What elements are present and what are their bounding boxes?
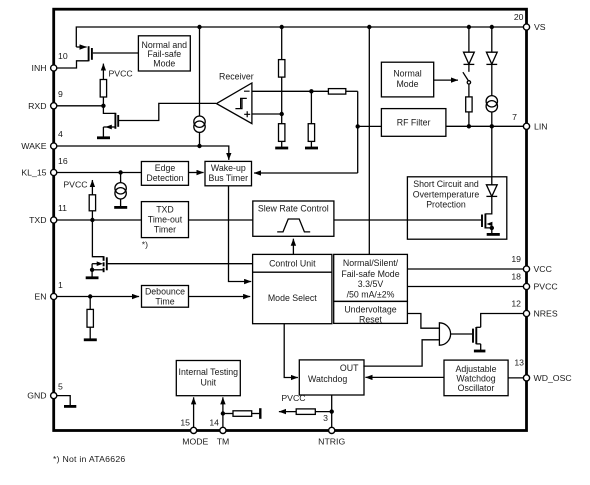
pin 12 NRES (511, 299, 558, 319)
resistor R7 (TXD pull-up) (89, 195, 95, 220)
block Short Circuit and Overtemperature Protection (407, 177, 506, 239)
PVCC supply arrow (NTRIG pull-up) (279, 393, 306, 412)
svg-text:VS: VS (534, 22, 546, 32)
svg-text:Unit: Unit (200, 377, 216, 387)
block Normal and Fail-safe Mode (138, 36, 190, 71)
wire watchdog out to gate input (363, 340, 439, 366)
pin 3 NTRIG (318, 413, 345, 447)
svg-text:PVCC: PVCC (63, 179, 87, 189)
svg-text:Protection: Protection (426, 200, 466, 210)
wire node to RF filter (358, 125, 382, 127)
pin 11 TXD (29, 203, 67, 225)
block Slew Rate Control (253, 201, 334, 236)
wire undervoltage reset to gate input (407, 314, 439, 329)
block Internal Testing Unit (176, 361, 240, 396)
gate U2 (AND) (439, 323, 450, 345)
ground (Q4 source) (474, 350, 486, 353)
ground (R8) (84, 338, 97, 341)
wire PVCC (407, 286, 526, 288)
svg-text:Receiver: Receiver (219, 72, 254, 82)
wire TXD (57, 219, 142, 221)
pin 5 GND (27, 382, 63, 401)
transistor Q2 (RXD output) (103, 106, 118, 137)
svg-text:Edge: Edge (155, 163, 176, 173)
svg-text:Short Circuit and: Short Circuit and (413, 179, 479, 189)
svg-text:EN: EN (34, 292, 46, 302)
wire receiver minus input (252, 90, 329, 92)
svg-text:WAKE: WAKE (21, 141, 46, 151)
ground (R5) (305, 147, 318, 150)
current source I1 (receiver bias) (194, 27, 205, 146)
svg-text:GND: GND (27, 391, 46, 401)
svg-text:Debounce: Debounce (145, 287, 185, 297)
resistor R5 (minus divider) (308, 91, 314, 147)
junction LIN-R6 (467, 124, 471, 128)
resistor R10 (TM test) (223, 408, 260, 419)
wire TXD box to slew rate control (189, 219, 253, 221)
transistor Q5 (LIN driver) (482, 196, 494, 233)
current source I2 (KL_15 bias) (115, 173, 126, 207)
svg-text:5: 5 (58, 382, 63, 392)
svg-text:Overtemperature: Overtemperature (413, 189, 480, 199)
block Normal Mode (381, 62, 433, 97)
pin 1 EN (34, 280, 63, 302)
junction plus-node (280, 112, 284, 116)
wire edge detection to wake-up timer (189, 172, 204, 174)
transistor Q1 (INH driver) (57, 46, 139, 68)
junction TM node (221, 411, 225, 415)
transistor Q4 (NRES driver) (473, 327, 481, 351)
svg-text:Watchdog: Watchdog (456, 373, 495, 383)
wire watchdog to NTRIG (331, 395, 333, 430)
wire MODE to testing unit (193, 397, 195, 430)
PVCC supply arrow (RXD pull-up) (103, 64, 132, 80)
svg-text:PVCC: PVCC (109, 69, 133, 79)
svg-text:16: 16 (58, 156, 68, 166)
junction TXD node (90, 218, 94, 222)
junction EN node (88, 294, 92, 298)
wire control unit to slew control (292, 239, 294, 255)
svg-text:Timer: Timer (154, 225, 176, 235)
svg-text:3: 3 (323, 413, 328, 423)
wire oscillator to watchdog (365, 376, 444, 378)
svg-text:TXD: TXD (29, 215, 46, 225)
junction rail-bias (197, 25, 201, 29)
svg-text:Time: Time (155, 297, 174, 307)
svg-text:Wake-up: Wake-up (211, 163, 246, 173)
svg-text:Bus Timer: Bus Timer (208, 173, 248, 183)
svg-text:KL_15: KL_15 (21, 168, 46, 178)
svg-text:14: 14 (209, 418, 219, 428)
resistor R8 (EN pull-down) (87, 297, 93, 340)
ground (I2) (114, 206, 127, 209)
svg-text:18: 18 (511, 272, 521, 282)
wire VS to regulator (368, 27, 370, 254)
svg-text:VCC: VCC (534, 264, 552, 274)
outer box (IC boundary) (54, 9, 527, 430)
pin 4 WAKE (21, 129, 63, 151)
svg-text:Control Unit: Control Unit (269, 259, 316, 269)
wire slew control to Q5 gate (334, 219, 481, 221)
junction rail-regulator (367, 25, 371, 29)
junction LIN-I3 (490, 124, 494, 128)
transistor Q3 (TXD sense) (90, 220, 107, 277)
wire NRES (481, 314, 526, 328)
svg-text:13: 13 (514, 358, 524, 368)
pin 9 RXD (28, 89, 63, 111)
junction LIN sense node (356, 124, 360, 128)
svg-text:WD_OSC: WD_OSC (534, 373, 572, 383)
svg-text:20: 20 (514, 12, 524, 22)
svg-text:Watchdog: Watchdog (308, 374, 347, 384)
ground (Q3 source) (86, 276, 99, 279)
wire VCC (407, 268, 526, 270)
wire KL_15 (57, 172, 142, 174)
junction WAKE-bias (197, 144, 201, 148)
svg-text:LIN: LIN (534, 121, 548, 131)
wire RXD (57, 105, 104, 107)
svg-text:Normal: Normal (393, 69, 421, 79)
svg-text:Detection: Detection (146, 173, 183, 183)
svg-text:Normal/Silent/: Normal/Silent/ (343, 258, 399, 268)
svg-text:Slew Rate Control: Slew Rate Control (258, 203, 329, 213)
svg-text:15: 15 (180, 418, 190, 428)
wire EN (57, 296, 140, 298)
svg-text:9: 9 (58, 89, 63, 99)
junction KL15-bias (118, 170, 122, 174)
block TXD Time-out Timer (141, 202, 188, 238)
resistor R9 (NTRIG pull-up) (296, 409, 332, 415)
svg-text:19: 19 (511, 254, 521, 264)
svg-text:PVCC: PVCC (534, 282, 558, 292)
junction minus-node (309, 89, 313, 93)
svg-text:Reset: Reset (359, 315, 383, 325)
resistor R6 (LIN slave term) (466, 97, 472, 126)
wire normal mode to switch (434, 79, 458, 81)
svg-text:NTRIG: NTRIG (318, 437, 345, 447)
junction rail-R2 (280, 25, 284, 29)
svg-text:INH: INH (32, 63, 47, 73)
resistor R3 (divider lower) (279, 124, 285, 148)
wire receiver output to Q2 gate (119, 103, 216, 120)
ground (R3) (275, 147, 288, 150)
diode D1 (464, 27, 475, 72)
wire LIN sense vertical (357, 91, 359, 173)
wire LIN (446, 125, 526, 127)
svg-text:TM: TM (217, 437, 230, 447)
svg-text:/50 mA/±2%: /50 mA/±2% (347, 289, 395, 299)
block Wake-up Bus Timer (205, 161, 252, 185)
svg-text:4: 4 (58, 129, 63, 139)
wire TM to testing unit (222, 397, 224, 430)
junction RXD node (101, 104, 105, 108)
svg-text:12: 12 (511, 299, 521, 309)
block Edge Detection (141, 162, 188, 186)
ground (Q2 source) (97, 136, 110, 139)
svg-text:RF Filter: RF Filter (397, 118, 431, 128)
svg-text:NRES: NRES (534, 309, 558, 319)
block Normal/Silent/Fail-safe Mode regulator (334, 254, 408, 301)
resistor R2 (bus pull-up upper) (279, 27, 285, 124)
pin 19 VCC (511, 254, 552, 274)
wire to wake-up bus timer (254, 172, 358, 174)
diode D3 (LIN driver clamp) (486, 185, 497, 197)
svg-text:Adjustable: Adjustable (455, 364, 496, 374)
current source I3 (LIN pull-up) (486, 96, 497, 127)
wire R1 to RXD node (102, 97, 104, 106)
svg-text:Time-out: Time-out (148, 215, 183, 225)
svg-text:Oscillator: Oscillator (458, 383, 495, 393)
wire receiver plus input (252, 113, 282, 115)
svg-text:TXD: TXD (156, 205, 174, 215)
block Undervoltage Reset (334, 301, 408, 324)
svg-text:10: 10 (58, 51, 68, 61)
pin 18 PVCC (511, 272, 557, 292)
pin 20 VS (514, 12, 546, 32)
wire Q3 gate to control unit (108, 263, 253, 265)
svg-text:Mode: Mode (153, 59, 175, 69)
pin 16 KL_15 (21, 156, 67, 178)
PVCC supply arrow (TXD pull-up) (63, 179, 92, 195)
svg-text:Mode: Mode (396, 79, 418, 89)
pin 10 INH (32, 51, 68, 73)
wire LIN to protection diode (491, 126, 493, 185)
svg-text:11: 11 (58, 203, 67, 213)
block Adjustable Watchdog Oscillator (444, 360, 508, 396)
svg-text:PVCC: PVCC (281, 393, 305, 403)
ground (Q5 source) (487, 233, 500, 236)
junction rail-D2 (490, 25, 494, 29)
switch S1 (normal mode) (463, 72, 471, 97)
ground (GND pin) (64, 405, 76, 408)
wire wake-up timer to mode select (229, 186, 252, 282)
block Debounce Time (142, 286, 189, 308)
svg-text:RXD: RXD (28, 101, 46, 111)
diode D2 (486, 27, 497, 96)
svg-text:3.3/5V: 3.3/5V (358, 279, 384, 289)
block Watchdog (299, 360, 364, 395)
svg-text:Internal Testing: Internal Testing (179, 367, 239, 377)
pin 13 WD_OSC (514, 358, 571, 383)
wire gate output (451, 333, 472, 335)
svg-text:7: 7 (512, 112, 517, 122)
resistor R4 (LIN series) (328, 89, 357, 95)
wire VS rail (76, 27, 526, 47)
wire WD_OSC (508, 377, 526, 379)
block RF Filter (381, 109, 446, 137)
wire GND pin to ground (57, 396, 71, 406)
pin 7 LIN (512, 112, 547, 131)
pin 15 MODE (180, 418, 208, 447)
block Control Unit / Mode Select (253, 254, 332, 323)
svg-text:1: 1 (58, 280, 63, 290)
junction NTRIG node (330, 409, 334, 413)
svg-text:Mode Select: Mode Select (268, 293, 317, 303)
op-amp U1 receiver comparator (217, 72, 254, 124)
svg-text:*) Not in ATA6626: *) Not in ATA6626 (53, 454, 126, 464)
wire WAKE (57, 146, 229, 160)
pin 14 TM (209, 418, 229, 447)
svg-text:OUT: OUT (340, 363, 359, 373)
svg-text:Fail-safe Mode: Fail-safe Mode (341, 269, 399, 279)
junction rail-D1 (467, 25, 471, 29)
resistor R1 (RXD pull-up) (100, 80, 106, 98)
svg-text:Undervoltage: Undervoltage (344, 304, 396, 314)
wire debounce to mode select (189, 296, 251, 298)
wire mode select to watchdog (284, 324, 298, 378)
svg-text:*): *) (142, 240, 148, 250)
svg-text:MODE: MODE (182, 437, 208, 447)
